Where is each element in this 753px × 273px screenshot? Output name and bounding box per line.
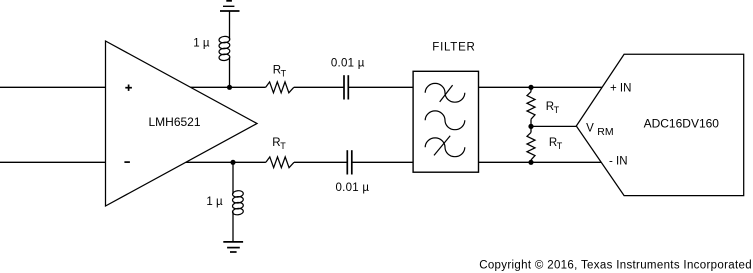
wire amp bottom output <box>185 161 266 163</box>
svg-text:+ IN: + IN <box>610 82 631 94</box>
filter wave mid <box>425 111 465 130</box>
pin - of U1 <box>124 161 129 163</box>
inductor L1 1u top <box>219 36 230 61</box>
svg-text:RM: RM <box>597 126 613 138</box>
label RT1 <box>273 65 287 79</box>
wire resistor to capacitor top <box>294 86 344 88</box>
filter box <box>413 71 478 172</box>
wire RT3 top stub <box>530 87 532 91</box>
label RT3 <box>546 101 560 115</box>
resistor RT3 (top shunt) <box>527 92 535 120</box>
svg-text:T: T <box>281 69 287 79</box>
svg-text:0.01 µ: 0.01 µ <box>331 57 365 69</box>
ADC U2 ADC16DV160 <box>576 54 743 195</box>
svg-text:- IN: - IN <box>609 156 628 168</box>
ground bottom <box>223 242 243 252</box>
wire capacitor to filter bottom <box>352 161 413 163</box>
pin + of U1 <box>125 85 132 91</box>
svg-text:T: T <box>554 105 560 115</box>
wire filter to ADC bottom <box>479 161 602 163</box>
svg-text:1 µ: 1 µ <box>206 196 223 208</box>
svg-text:ADC16DV160: ADC16DV160 <box>644 117 720 131</box>
svg-text:FILTER: FILTER <box>432 41 475 53</box>
wire bottom inductor upper <box>232 162 234 194</box>
wire capacitor to filter top <box>348 86 413 88</box>
node RT4 bottom junction <box>528 160 533 165</box>
svg-text:T: T <box>557 141 563 151</box>
wire RT3 to node VRM <box>530 119 532 132</box>
filter wave high (crossed) <box>425 83 465 102</box>
wire input- <box>0 161 106 163</box>
wire top inductor upper <box>229 11 231 40</box>
op-amp U1 LMH6521 <box>106 41 258 206</box>
resistor RT4 (bottom shunt) <box>527 132 535 160</box>
wire filter to ADC top <box>479 86 603 88</box>
svg-text:1 µ: 1 µ <box>193 38 210 50</box>
label node VRM <box>586 123 614 139</box>
node RT3 top junction <box>528 85 533 90</box>
ground top (flipped) <box>220 1 240 11</box>
node bottom junction <box>230 160 235 165</box>
wire bottom inductor lower <box>232 212 234 242</box>
wire resistor to capacitor bottom <box>294 161 347 163</box>
capacitor C2 0.01u bottom <box>347 150 352 174</box>
node top junction <box>227 85 232 90</box>
node VRM junction <box>528 124 533 129</box>
wire RT4 bottom stub <box>530 160 532 162</box>
svg-text:T: T <box>280 141 286 151</box>
wire input+ <box>0 86 106 88</box>
capacitor C1 0.01u top <box>344 75 348 99</box>
resistor RT2 (bottom series) <box>266 157 294 168</box>
label RT2 <box>272 137 286 151</box>
resistor RT1 (top series) <box>266 82 294 93</box>
inductor L2 1u bottom <box>232 190 243 215</box>
wire top inductor lower <box>229 57 231 87</box>
wire amp top output <box>191 86 266 88</box>
filter wave low (crossed) <box>425 136 465 157</box>
svg-text:Copyright © 2016, Texas Instru: Copyright © 2016, Texas Instruments Inco… <box>479 260 752 272</box>
wire VRM to ADC <box>531 125 576 127</box>
svg-text:LMH6521: LMH6521 <box>148 115 200 129</box>
svg-text:V: V <box>586 123 594 135</box>
label RT4 <box>549 137 563 151</box>
svg-text:0.01 µ: 0.01 µ <box>336 182 370 194</box>
